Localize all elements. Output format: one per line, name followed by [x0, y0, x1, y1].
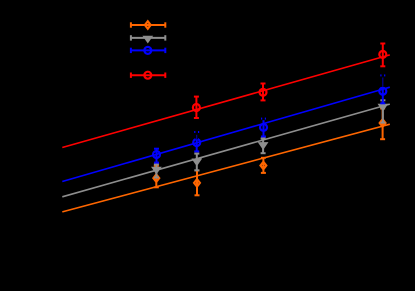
blue fit line [62, 87, 390, 181]
orange data point 4 with error bar [380, 109, 386, 140]
gray fit line [62, 104, 390, 197]
gray data point 1 with error bar [153, 164, 160, 177]
black (invisible) series error stem over blue point 4 [381, 73, 384, 88]
orange fit line [62, 124, 390, 212]
red data point 3 with error bar [379, 44, 386, 67]
gray data point 3 with error bar [260, 139, 267, 154]
red data point 2 with error bar [260, 84, 267, 101]
red fit line [62, 55, 390, 148]
blue data point 4 with error bar [379, 75, 386, 103]
legend entry: red circle errorbar sample [131, 72, 165, 79]
legend entry: gray triangle errorbar sample [131, 35, 165, 41]
red data point 1 with error bar [193, 97, 200, 118]
blue data point 2 with error bar [193, 132, 200, 151]
black (invisible) series error stem over blue point 2 [195, 130, 198, 140]
blue data point 3 with error bar [260, 119, 267, 137]
orange data point 1 with error bar [153, 166, 159, 188]
orange data point 2 with error bar [194, 171, 200, 196]
gray data point 4 with error bar [380, 100, 387, 122]
legend entry: blue circle errorbar sample [131, 47, 165, 54]
blue data point 1 with error bar [153, 149, 160, 163]
legend entry: orange diamond errorbar sample [131, 21, 165, 28]
black (invisible) series error stem over blue point 3 [262, 116, 265, 120]
orange data point 3 with error bar [261, 158, 267, 173]
gray data point 2 with error bar [194, 154, 201, 171]
